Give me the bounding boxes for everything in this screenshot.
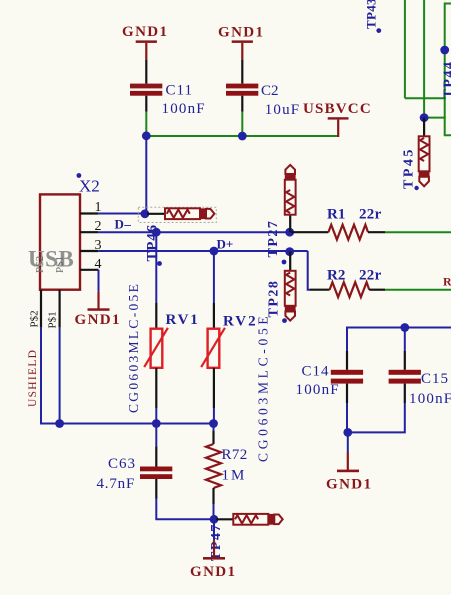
- pin 1 line: [80, 212, 98, 214]
- node junction TP28 on D+: [285, 247, 294, 256]
- capacitor C15 plates: [389, 370, 421, 375]
- svg-text:CG0603MLC-05E: CG0603MLC-05E: [256, 313, 271, 462]
- node junction P$1/shield: [55, 419, 64, 428]
- supply USBVCC bar: [328, 117, 349, 119]
- wire R72 to bottom net: [213, 504, 215, 519]
- ground GND1 (pin4) bar: [88, 308, 110, 311]
- pin 4 line: [80, 269, 99, 271]
- svg-text:P$1: P$1: [54, 256, 66, 273]
- capacitor C11 bottom pin: [145, 96, 147, 112]
- capacitor C15 bottom pin: [404, 384, 406, 403]
- resistor R2 right lead: [369, 289, 385, 291]
- svg-text:D+: D+: [217, 237, 234, 252]
- resistor R72 top lead: [212, 431, 214, 444]
- node TP46 origin dot: [157, 261, 162, 266]
- SECTION: top-right green box TP43 TP44 TP45: [364, 0, 451, 190]
- test point TP27 collar: [285, 175, 296, 180]
- resistor R72 bottom lead: [212, 488, 214, 504]
- wire RV2 to shield net: [213, 408, 215, 424]
- ground GND1 (bottom) bar: [203, 557, 225, 560]
- test point TP46 selection frame: [138, 207, 216, 222]
- varistor RV1 diagonal: [144, 328, 168, 367]
- wire shield P$1 vertical: [59, 328, 61, 424]
- ground GND1 (bottom right) bar: [337, 470, 359, 473]
- test point TP47 pin stub: [216, 518, 233, 520]
- test point TP28 pin stub: [289, 252, 291, 271]
- svg-text:TP27: TP27: [266, 220, 281, 258]
- ground GND1 (bottom right) stub: [347, 452, 349, 470]
- wire green R1 output: [385, 231, 451, 233]
- test point TP46 collar: [201, 208, 206, 219]
- svg-text:10uF: 10uF: [265, 102, 301, 118]
- SECTION: bottom-right C14 C15: [296, 323, 451, 492]
- test point TP27 body: [285, 180, 296, 215]
- node junction RV1/shield: [152, 419, 161, 428]
- resistor R1 right lead: [368, 231, 385, 233]
- svg-text:C14: C14: [302, 364, 330, 380]
- ground GND1 (bottom) stub: [213, 540, 215, 557]
- wire green C2 to junction: [241, 112, 243, 136]
- wire junction to ground: [347, 432, 349, 452]
- wire green USBVCC horizontal: [146, 135, 338, 137]
- wire C15 bottom to C14: [347, 403, 405, 432]
- pin P$2 line (bottom): [40, 290, 42, 328]
- capacitor C11 top pin: [145, 60, 147, 84]
- node junction C15 top: [400, 323, 409, 332]
- capacitor C15 top pin: [404, 351, 406, 370]
- test point TP47 collar: [269, 514, 274, 525]
- test point TP45 pin stub: [423, 118, 425, 137]
- SECTION: bottom C63 R72 TP47: [97, 424, 283, 581]
- node junction RV1 on D-: [152, 228, 161, 237]
- wire C63 top: [155, 424, 157, 447]
- test point TP27 pin stub: [289, 215, 291, 233]
- test point TP45 collar: [419, 171, 430, 176]
- wire green horizontal A-C: [405, 97, 446, 99]
- node junction TP46: [141, 209, 150, 218]
- svg-text:CG0603MLC-05E: CG0603MLC-05E: [126, 282, 141, 413]
- node junction RV2 on D+: [210, 247, 219, 256]
- wire D+ vertical to R2 row: [308, 251, 310, 290]
- test point TP28 spring: [286, 273, 294, 296]
- svg-text:TP28: TP28: [267, 280, 282, 318]
- svg-text:C63: C63: [108, 456, 136, 472]
- svg-text:GND1: GND1: [190, 564, 236, 580]
- svg-text:X2: X2: [79, 177, 100, 196]
- test point TP45 body: [419, 136, 430, 171]
- capacitor C63 plates: [140, 467, 172, 472]
- pin 2 line: [80, 231, 98, 233]
- varistor RV2 top pin: [213, 303, 215, 329]
- svg-text:GND1: GND1: [326, 477, 372, 493]
- test point TP45 tip: [419, 177, 429, 187]
- svg-text:P$2: P$2: [29, 310, 41, 327]
- svg-text:D–: D–: [115, 217, 132, 232]
- svg-text:4: 4: [95, 257, 102, 272]
- svg-text:USHIELD: USHIELD: [27, 349, 39, 407]
- varistor RV2 top wire: [213, 251, 215, 303]
- resistor R72 zigzag: [206, 444, 221, 488]
- test point TP46 spring: [167, 210, 190, 218]
- node junction TP27 on D-: [285, 228, 294, 237]
- varistor RV2 body: [208, 329, 220, 368]
- resistor R2 left lead: [310, 289, 330, 291]
- svg-text:R72: R72: [222, 447, 248, 463]
- node junction TP45: [420, 113, 429, 122]
- resistor R1 zigzag: [328, 225, 368, 240]
- node junction C14 bottom: [343, 428, 352, 437]
- node TP28 origin dot: [282, 318, 287, 323]
- ground GND1 (pin4) stub: [97, 292, 99, 309]
- wire pin4 to ground: [98, 270, 100, 292]
- svg-text:100nF: 100nF: [409, 391, 451, 407]
- svg-text:100nF: 100nF: [162, 101, 206, 117]
- wire shield left vertical: [40, 328, 42, 424]
- wire green vertical A: [404, 0, 406, 98]
- capacitor C2 bottom pin: [241, 96, 243, 112]
- svg-text:22r: 22r: [359, 268, 382, 284]
- wire C15 vertical: [404, 328, 406, 352]
- supply USBVCC stub: [337, 120, 339, 137]
- capacitor C11 plates: [130, 84, 162, 89]
- pin P$1 line (bottom): [58, 290, 60, 328]
- wire C63 to bottom net: [156, 499, 214, 520]
- SECTION: top-mid C2 + USBVCC: [218, 25, 372, 141]
- ground GND1 (top left) bar: [136, 40, 157, 43]
- test point TP47 tip: [274, 515, 282, 525]
- capacitor C63 bottom pin: [155, 479, 157, 499]
- wire shield net horizontal: [41, 423, 214, 424]
- capacitor C14 bottom pin: [346, 384, 348, 403]
- SECTION: varistors RV1 RV2: [126, 232, 271, 462]
- capacitor C2 plates: [226, 84, 258, 89]
- svg-text:USBVCC: USBVCC: [303, 101, 372, 117]
- node junction C11/USBVCC: [142, 131, 151, 140]
- node TP43 origin dot: [376, 28, 381, 33]
- node junction TP44: [440, 46, 449, 55]
- svg-text:P$1: P$1: [47, 311, 59, 328]
- capacitor C2 top pin: [241, 60, 243, 84]
- wire green horizontal B-C: [424, 117, 446, 119]
- svg-text:RV1: RV1: [166, 312, 200, 328]
- test point TP46 tip: [206, 209, 214, 219]
- varistor RV2 diagonal: [201, 328, 225, 367]
- capacitor C14 top pin: [346, 351, 348, 370]
- SECTION: USB connector X2: [27, 173, 214, 428]
- svg-text:TP47: TP47: [209, 523, 224, 561]
- connector X2 body: [40, 194, 80, 289]
- node junction RV2/shield: [209, 419, 218, 428]
- wire R72 top: [213, 424, 215, 432]
- wire green R2 output: [385, 289, 451, 291]
- svg-text:GND1: GND1: [122, 24, 168, 40]
- wire D- (pin2 to R1): [98, 231, 291, 233]
- test point TP27 tip: [285, 165, 295, 174]
- svg-text:R: R: [443, 275, 451, 289]
- wire C14 bottom: [346, 403, 348, 432]
- wire top rail C14/C15: [347, 328, 451, 352]
- test point TP45 spring: [420, 138, 428, 161]
- svg-text:P$2: P$2: [34, 256, 46, 273]
- ground GND1 stub: [145, 43, 147, 60]
- test point TP28 tip: [285, 312, 295, 321]
- ground GND1 (top mid) bar: [232, 40, 253, 43]
- svg-text:22r: 22r: [359, 207, 382, 223]
- node X2 origin dot: [77, 173, 82, 178]
- capacitor C14 plates: [331, 370, 363, 375]
- wire green top right corner: [445, 4, 451, 136]
- SECTION: top-left C11: [122, 24, 338, 214]
- test point TP27 spring: [286, 190, 294, 213]
- svg-text:4.7nF: 4.7nF: [97, 476, 136, 492]
- SECTION: data lines TP46 TP27 TP28 R1 R2: [98, 165, 451, 323]
- svg-text:100nF: 100nF: [296, 382, 340, 398]
- node junction bottom net: [210, 515, 219, 524]
- node TP45 origin dot: [414, 186, 418, 190]
- wire blue junction down to TP46: [145, 136, 147, 214]
- wire RV1 to shield net: [155, 408, 157, 424]
- capacitor C63 top pin: [155, 446, 157, 466]
- varistor RV1 bottom pin: [155, 368, 157, 408]
- resistor R1 left lead: [291, 231, 328, 233]
- svg-text:TP44: TP44: [442, 61, 451, 99]
- test point TP46 pin stub: [147, 213, 165, 215]
- wire junction to ground: [213, 519, 215, 540]
- ground GND1 stub: [241, 43, 243, 60]
- svg-text:C11: C11: [166, 83, 193, 99]
- varistor RV1 top pin: [155, 303, 157, 329]
- svg-text:1M: 1M: [222, 468, 247, 484]
- svg-text:GND1: GND1: [218, 25, 264, 41]
- wire pin1 to TP46 junction: [98, 213, 145, 215]
- wire green vertical B: [423, 0, 425, 118]
- node junction C2/USBVCC: [238, 132, 247, 141]
- svg-text:C15: C15: [421, 371, 449, 387]
- svg-text:C2: C2: [261, 83, 279, 99]
- node TP27 origin dot: [282, 260, 287, 265]
- svg-text:TP45: TP45: [402, 147, 417, 189]
- varistor RV1 body: [151, 329, 163, 368]
- test point TP47 body: [233, 514, 268, 525]
- resistor R2 zigzag: [330, 282, 370, 297]
- test point TP28 body: [285, 271, 296, 306]
- varistor RV2 bottom pin: [213, 368, 215, 408]
- test point TP46 body: [165, 208, 200, 219]
- svg-text:R2: R2: [327, 268, 345, 284]
- pin 3 line: [80, 250, 98, 252]
- svg-text:GND1: GND1: [75, 312, 121, 328]
- wire green C11 to junction: [145, 112, 147, 136]
- wire D+ (pin3 right): [98, 250, 307, 252]
- svg-text:RV2: RV2: [223, 314, 258, 330]
- varistor RV1 top wire: [155, 232, 157, 303]
- test point TP47 spring: [235, 515, 258, 523]
- test point TP28 collar: [285, 306, 296, 311]
- svg-text:TP43: TP43: [364, 0, 379, 29]
- svg-text:R1: R1: [327, 207, 345, 223]
